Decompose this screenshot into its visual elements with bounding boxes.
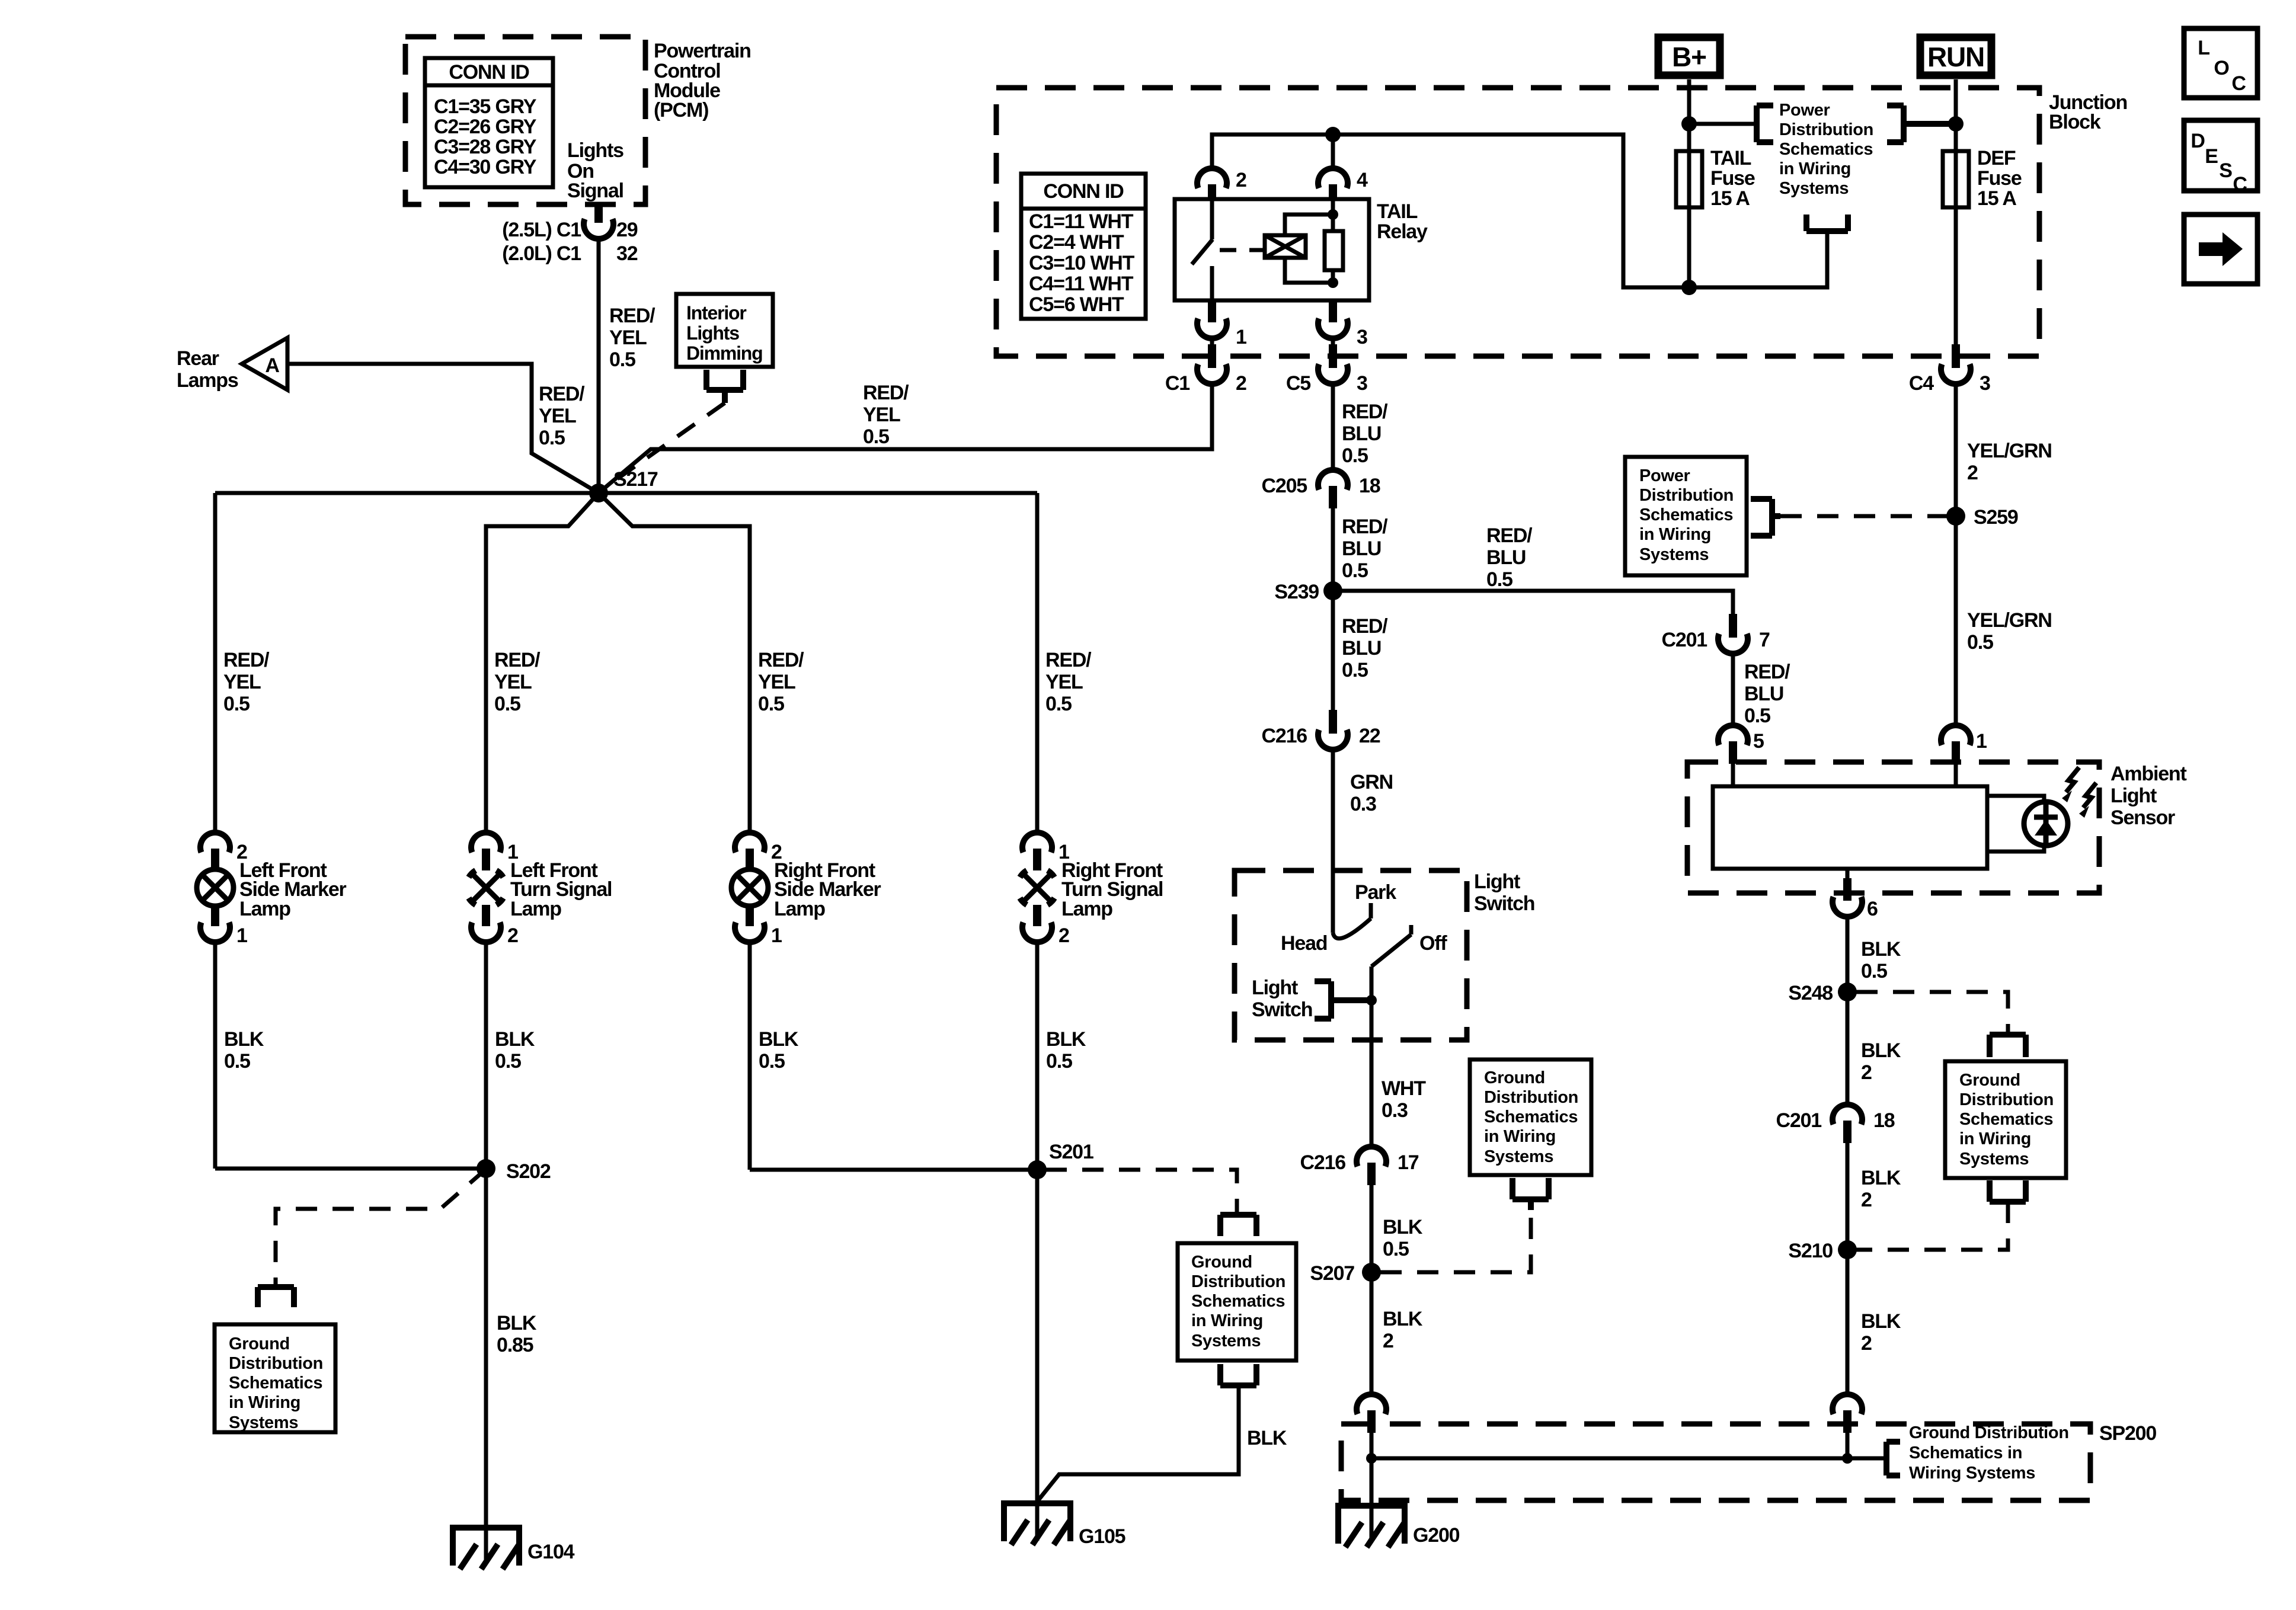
svg-text:BLU: BLU — [1342, 537, 1381, 560]
svg-text:Light: Light — [1474, 870, 1520, 893]
svg-text:Switch: Switch — [1252, 998, 1312, 1021]
svg-text:Switch: Switch — [1474, 892, 1534, 915]
svg-text:RED/: RED/ — [539, 383, 585, 405]
svg-text:A: A — [265, 354, 279, 377]
svg-text:22: 22 — [1359, 725, 1380, 747]
svg-text:2: 2 — [507, 924, 518, 947]
svg-text:Systems: Systems — [1484, 1147, 1553, 1166]
svg-text:Schematics: Schematics — [1484, 1108, 1578, 1126]
svg-text:Lights: Lights — [686, 322, 739, 344]
svg-text:Schematics: Schematics — [1639, 505, 1733, 524]
svg-text:TAIL: TAIL — [1710, 147, 1751, 169]
svg-text:C216: C216 — [1300, 1151, 1346, 1174]
svg-text:WHT: WHT — [1382, 1077, 1426, 1100]
svg-text:2: 2 — [1861, 1061, 1872, 1084]
svg-text:in Wiring: in Wiring — [1191, 1311, 1263, 1330]
svg-text:Schematics in: Schematics in — [1909, 1443, 2022, 1462]
svg-text:BLK: BLK — [497, 1312, 537, 1334]
svg-text:0.5: 0.5 — [609, 348, 635, 371]
svg-text:0.5: 0.5 — [1861, 960, 1887, 982]
svg-text:Systems: Systems — [1959, 1150, 2029, 1169]
svg-text:29: 29 — [616, 219, 638, 241]
svg-text:RED/: RED/ — [223, 649, 270, 671]
svg-text:S201: S201 — [1049, 1141, 1093, 1163]
svg-text:Head: Head — [1281, 932, 1327, 955]
svg-text:CONN ID: CONN ID — [449, 61, 529, 84]
svg-text:15 A: 15 A — [1977, 187, 2016, 210]
svg-text:BLK: BLK — [1861, 1310, 1901, 1333]
svg-text:BLU: BLU — [1744, 683, 1783, 705]
svg-text:in Wiring: in Wiring — [229, 1393, 300, 1412]
svg-text:in Wiring: in Wiring — [1779, 159, 1851, 178]
svg-text:G105: G105 — [1079, 1525, 1125, 1548]
svg-text:BLU: BLU — [1342, 422, 1381, 445]
svg-text:Systems: Systems — [1639, 545, 1709, 564]
svg-text:Ground: Ground — [1959, 1071, 2020, 1090]
svg-text:Lamps: Lamps — [177, 369, 238, 392]
svg-text:Ground: Ground — [1191, 1253, 1252, 1272]
svg-text:DEF: DEF — [1977, 147, 2016, 169]
svg-text:BLK: BLK — [1247, 1427, 1287, 1449]
svg-text:C1: C1 — [1165, 372, 1189, 395]
svg-text:C201: C201 — [1776, 1109, 1822, 1132]
svg-text:S217: S217 — [613, 468, 658, 491]
svg-text:Power: Power — [1779, 101, 1830, 120]
svg-text:0.5: 0.5 — [1342, 444, 1368, 467]
svg-text:RED/: RED/ — [1744, 661, 1790, 683]
svg-text:18: 18 — [1873, 1109, 1895, 1132]
svg-text:3: 3 — [1357, 326, 1367, 348]
svg-text:2: 2 — [1059, 924, 1069, 947]
svg-text:Dimming: Dimming — [686, 343, 763, 364]
svg-text:C3=10 WHT: C3=10 WHT — [1029, 252, 1135, 274]
svg-text:BLK: BLK — [759, 1028, 799, 1051]
svg-text:C2=4 WHT: C2=4 WHT — [1029, 231, 1124, 254]
svg-text:TAIL: TAIL — [1377, 200, 1418, 223]
svg-text:2: 2 — [1383, 1330, 1393, 1352]
svg-text:1: 1 — [236, 924, 247, 947]
svg-text:C1=11 WHT: C1=11 WHT — [1029, 210, 1134, 233]
svg-text:BLU: BLU — [1486, 546, 1526, 569]
svg-text:Systems: Systems — [1191, 1331, 1261, 1350]
svg-text:B+: B+ — [1672, 41, 1706, 72]
svg-text:C1=35 GRY: C1=35 GRY — [434, 95, 537, 118]
svg-text:Off: Off — [1419, 932, 1447, 955]
svg-text:BLK: BLK — [1861, 938, 1901, 961]
svg-text:Powertrain: Powertrain — [654, 40, 751, 62]
svg-text:0.5: 0.5 — [495, 1050, 521, 1073]
svg-text:0.5: 0.5 — [1967, 631, 1993, 654]
svg-text:BLK: BLK — [1861, 1167, 1901, 1189]
svg-text:C: C — [2231, 72, 2246, 95]
svg-text:3: 3 — [1357, 372, 1367, 395]
svg-text:in Wiring: in Wiring — [1639, 525, 1711, 544]
svg-text:Schematics: Schematics — [1779, 140, 1873, 159]
svg-text:Schematics: Schematics — [229, 1374, 322, 1393]
svg-text:E: E — [2205, 145, 2218, 168]
svg-text:in Wiring: in Wiring — [1484, 1127, 1556, 1146]
svg-text:18: 18 — [1359, 475, 1380, 497]
svg-text:S259: S259 — [1974, 506, 2018, 529]
svg-text:GRN: GRN — [1350, 771, 1393, 793]
svg-text:5: 5 — [1753, 730, 1764, 753]
svg-text:2: 2 — [1967, 462, 1978, 484]
svg-text:6: 6 — [1867, 898, 1878, 920]
svg-text:RED/: RED/ — [863, 382, 909, 404]
svg-text:YEL/GRN: YEL/GRN — [1967, 440, 2052, 462]
svg-text:Distribution: Distribution — [1484, 1088, 1578, 1107]
svg-text:7: 7 — [1759, 629, 1770, 651]
svg-text:G200: G200 — [1413, 1524, 1460, 1547]
svg-text:Light: Light — [2110, 785, 2157, 807]
svg-text:0.5: 0.5 — [494, 693, 520, 715]
svg-text:YEL: YEL — [609, 327, 647, 349]
svg-text:RED/: RED/ — [1486, 524, 1533, 547]
svg-text:RED/: RED/ — [494, 649, 541, 671]
svg-text:YEL: YEL — [863, 404, 900, 426]
svg-text:Systems: Systems — [229, 1413, 298, 1432]
svg-text:BLU: BLU — [1342, 637, 1381, 660]
svg-text:Relay: Relay — [1377, 220, 1428, 243]
svg-text:Signal: Signal — [567, 180, 623, 202]
svg-text:Distribution: Distribution — [1639, 486, 1734, 505]
svg-text:Sensor: Sensor — [2110, 806, 2175, 829]
svg-text:C: C — [2233, 173, 2247, 196]
svg-text:S207: S207 — [1310, 1262, 1354, 1285]
svg-text:Distribution: Distribution — [1191, 1272, 1285, 1291]
svg-text:15 A: 15 A — [1710, 187, 1750, 210]
svg-text:0.5: 0.5 — [1486, 568, 1512, 591]
svg-text:CONN ID: CONN ID — [1043, 180, 1124, 203]
svg-text:2: 2 — [1861, 1189, 1872, 1211]
svg-text:Fuse: Fuse — [1977, 167, 2022, 190]
svg-text:Systems: Systems — [1779, 179, 1849, 198]
svg-text:0.5: 0.5 — [1045, 693, 1072, 715]
svg-text:O: O — [2214, 57, 2229, 79]
svg-text:Lamp: Lamp — [1061, 898, 1112, 920]
svg-text:32: 32 — [616, 242, 638, 265]
svg-text:SP200: SP200 — [2099, 1422, 2156, 1445]
svg-text:C4=30 GRY: C4=30 GRY — [434, 156, 537, 178]
svg-text:Ambient: Ambient — [2110, 763, 2186, 785]
svg-text:0.5: 0.5 — [1383, 1238, 1409, 1260]
svg-text:Lamp: Lamp — [774, 898, 825, 920]
svg-text:YEL: YEL — [1045, 671, 1083, 693]
svg-text:0.5: 0.5 — [223, 693, 250, 715]
svg-text:Distribution: Distribution — [229, 1354, 323, 1373]
svg-text:RED/: RED/ — [1045, 649, 1092, 671]
svg-text:RED/: RED/ — [1342, 401, 1388, 423]
svg-text:BLK: BLK — [1383, 1216, 1423, 1238]
svg-text:C4: C4 — [1909, 372, 1934, 395]
svg-text:Block: Block — [2049, 111, 2101, 133]
svg-text:G104: G104 — [527, 1541, 575, 1563]
svg-text:BLK: BLK — [1383, 1308, 1423, 1330]
svg-text:S239: S239 — [1274, 581, 1319, 603]
svg-text:(2.5L) C1: (2.5L) C1 — [502, 219, 581, 241]
svg-text:BLK: BLK — [224, 1028, 264, 1051]
svg-text:YEL: YEL — [223, 671, 261, 693]
svg-text:0.5: 0.5 — [539, 427, 565, 449]
svg-text:Ground: Ground — [229, 1334, 290, 1353]
svg-text:C5=6 WHT: C5=6 WHT — [1029, 293, 1124, 316]
svg-text:0.85: 0.85 — [497, 1334, 533, 1356]
svg-text:RED/: RED/ — [1342, 615, 1388, 638]
svg-text:Ground Distribution: Ground Distribution — [1909, 1423, 2069, 1442]
svg-text:0.3: 0.3 — [1350, 793, 1376, 815]
svg-text:RUN: RUN — [1927, 41, 1984, 72]
svg-text:Distribution: Distribution — [1959, 1090, 2054, 1109]
svg-text:Wiring Systems: Wiring Systems — [1909, 1464, 2035, 1483]
svg-text:1: 1 — [1976, 730, 1987, 753]
svg-text:YEL/GRN: YEL/GRN — [1967, 609, 2052, 632]
svg-text:Interior: Interior — [686, 302, 746, 324]
svg-text:Light: Light — [1252, 977, 1298, 999]
svg-text:in Wiring: in Wiring — [1959, 1129, 2031, 1148]
svg-text:BLK: BLK — [1861, 1039, 1901, 1062]
svg-text:Distribution: Distribution — [1779, 120, 1873, 139]
svg-text:S210: S210 — [1788, 1240, 1833, 1262]
svg-text:C216: C216 — [1262, 725, 1307, 747]
svg-text:0.5: 0.5 — [759, 1050, 785, 1073]
svg-text:17: 17 — [1398, 1151, 1419, 1174]
svg-text:Schematics: Schematics — [1191, 1292, 1285, 1311]
svg-text:S248: S248 — [1788, 982, 1833, 1004]
svg-text:0.5: 0.5 — [1342, 559, 1368, 582]
svg-text:1: 1 — [771, 924, 782, 947]
svg-text:0.3: 0.3 — [1382, 1099, 1408, 1122]
svg-text:Lights: Lights — [567, 139, 623, 162]
svg-text:(PCM): (PCM) — [654, 99, 708, 121]
svg-text:YEL: YEL — [494, 671, 532, 693]
svg-text:C5: C5 — [1286, 372, 1310, 395]
svg-text:Ground: Ground — [1484, 1068, 1545, 1087]
svg-text:RED/: RED/ — [609, 305, 655, 327]
svg-text:YEL: YEL — [758, 671, 795, 693]
svg-text:0.5: 0.5 — [758, 693, 784, 715]
svg-text:C3=28 GRY: C3=28 GRY — [434, 136, 537, 158]
svg-text:(2.0L) C1: (2.0L) C1 — [502, 242, 581, 265]
svg-text:1: 1 — [1236, 326, 1246, 348]
svg-text:Park: Park — [1355, 881, 1396, 904]
svg-text:3: 3 — [1980, 372, 1990, 395]
svg-text:S202: S202 — [506, 1160, 551, 1183]
svg-text:0.5: 0.5 — [1744, 705, 1770, 727]
svg-text:2: 2 — [1236, 169, 1246, 191]
svg-text:RED/: RED/ — [758, 649, 804, 671]
svg-text:C201: C201 — [1662, 629, 1707, 651]
svg-text:C2=26 GRY: C2=26 GRY — [434, 116, 537, 138]
svg-text:D: D — [2191, 130, 2205, 152]
svg-text:C4=11 WHT: C4=11 WHT — [1029, 273, 1134, 295]
svg-text:S: S — [2219, 159, 2232, 182]
svg-text:Lamp: Lamp — [239, 898, 290, 920]
svg-text:Fuse: Fuse — [1710, 167, 1755, 190]
svg-text:Schematics: Schematics — [1959, 1110, 2053, 1129]
svg-text:Power: Power — [1639, 466, 1690, 485]
svg-text:YEL: YEL — [539, 405, 576, 427]
svg-text:Lamp: Lamp — [510, 898, 561, 920]
svg-text:0.5: 0.5 — [863, 425, 889, 448]
svg-text:C205: C205 — [1262, 475, 1307, 497]
svg-text:2: 2 — [1861, 1332, 1872, 1355]
svg-text:2: 2 — [1236, 372, 1246, 395]
svg-text:BLK: BLK — [495, 1028, 535, 1051]
svg-text:RED/: RED/ — [1342, 516, 1388, 538]
svg-text:BLK: BLK — [1046, 1028, 1086, 1051]
svg-text:0.5: 0.5 — [1342, 659, 1368, 681]
svg-text:L: L — [2198, 37, 2209, 59]
svg-text:0.5: 0.5 — [224, 1050, 250, 1073]
svg-text:4: 4 — [1357, 169, 1368, 191]
svg-text:Rear: Rear — [177, 347, 219, 370]
svg-text:0.5: 0.5 — [1046, 1050, 1072, 1073]
